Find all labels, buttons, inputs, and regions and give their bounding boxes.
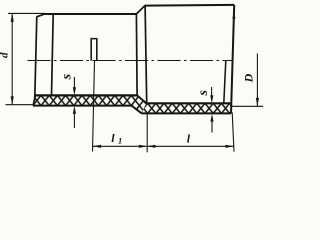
arrow D down xyxy=(256,98,259,106)
wire top extension line d xyxy=(8,12,45,14)
transition slant bottom xyxy=(132,106,142,114)
arrow blob on right edge xyxy=(232,12,235,18)
bottom extension line d xyxy=(6,104,34,106)
centerline xyxy=(28,60,234,62)
strip top line right xyxy=(146,102,231,104)
arrow l1 left xyxy=(93,145,101,148)
svg-text:s: s xyxy=(196,90,211,97)
hatched wall section left xyxy=(30,93,150,116)
svg-text:d: d xyxy=(0,52,11,58)
left end face xyxy=(35,17,37,98)
step chamfer xyxy=(137,6,146,14)
strip left end slant xyxy=(33,95,35,105)
svg-text:s: s xyxy=(60,73,75,80)
strip bottom line left (outer surface) xyxy=(33,105,132,107)
dimension s right lower xyxy=(211,121,213,133)
arrow s left up xyxy=(73,106,76,114)
dimension D line xyxy=(256,54,258,107)
arrow s right down xyxy=(210,95,213,103)
dimension s right upper xyxy=(211,87,213,96)
arrow s right up xyxy=(210,114,213,122)
dimension s left upper xyxy=(73,77,75,88)
arrow l right xyxy=(226,145,234,148)
extension line l1/l middle xyxy=(146,113,148,152)
extension line D bottom xyxy=(232,105,264,107)
arrow l left xyxy=(147,145,155,148)
dimension d line xyxy=(11,13,13,104)
top edge small cylinder xyxy=(45,13,137,15)
arrow d bottom xyxy=(11,96,14,104)
chamfer left end xyxy=(37,14,46,17)
arrow s left down xyxy=(73,87,76,95)
step face xyxy=(135,14,138,96)
svg-text:D: D xyxy=(241,73,255,83)
strip bottom line right xyxy=(142,112,231,114)
top edge large cylinder xyxy=(145,4,235,7)
dimension line l1 and l xyxy=(93,145,234,147)
arrow d top xyxy=(11,13,14,21)
right inner bore line xyxy=(224,61,226,104)
hatched wall section right xyxy=(140,101,236,116)
large end face xyxy=(145,5,147,103)
left socket bead line xyxy=(52,14,54,96)
extension line l1 left xyxy=(93,61,95,152)
right end face xyxy=(231,5,234,114)
extension line l right xyxy=(232,113,234,152)
strip top line left (inner surface) xyxy=(35,94,137,96)
arrow l1 right xyxy=(139,145,147,148)
dimension s left lower xyxy=(73,113,75,128)
transition slant top xyxy=(137,95,146,103)
socket depth tab on centerline xyxy=(91,39,97,61)
